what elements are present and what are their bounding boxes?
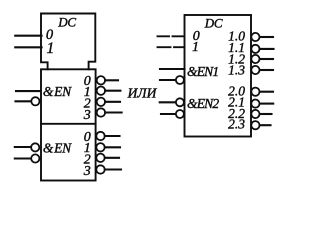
wire EN-B output 2: [105, 157, 119, 159]
inversion bubble EN-B output 3: [96, 165, 104, 173]
inversion bubble EN-A output 2: [97, 98, 105, 106]
wire DC2 output 2.2: [260, 113, 272, 115]
inversion bubble DC2 output 2.2: [251, 110, 259, 118]
wire EN-B output 0: [105, 135, 120, 137]
decoder block DC2 outline: [185, 15, 252, 137]
inversion bubble EN-A input 2: [31, 97, 39, 105]
svg-text:3: 3: [83, 164, 91, 179]
wire EN2 input 2: [161, 113, 176, 115]
wire DC1 input 0: [15, 35, 41, 37]
wire DC2 address input 0: [158, 35, 185, 37]
inversion bubble EN-A output 0: [97, 76, 105, 84]
svg-text:1.3: 1.3: [228, 63, 245, 78]
wire EN1 input inverted: [160, 79, 176, 81]
wire DC2 output 1.0: [260, 36, 273, 38]
svg-text:& EN: & EN: [43, 141, 72, 156]
wire DC2 output 1.2: [260, 58, 273, 60]
wire EN-B input 2: [15, 157, 31, 159]
wire DC2 output 2.1: [260, 103, 273, 105]
wire DC2 address input 1: [158, 46, 185, 48]
inversion bubble EN-B output 0: [96, 132, 104, 140]
svg-text:&EN2: &EN2: [187, 96, 219, 111]
wire EN-A output 3: [105, 111, 121, 113]
inversion bubble DC2 output 1.3: [251, 66, 259, 74]
inversion bubble DC2 output 2.0: [251, 88, 259, 96]
inversion bubble EN-B input 1: [31, 143, 39, 151]
inversion bubble EN-B output 2: [96, 154, 104, 162]
wire EN1 input direct: [160, 68, 185, 70]
wire DC2 output 1.1: [260, 48, 274, 50]
svg-text:1: 1: [192, 40, 199, 55]
wire DC1 input 1: [15, 46, 41, 48]
gate block EN-A and EN-B shared rectangle: [41, 69, 96, 180]
divider between EN-A and EN-B: [41, 123, 96, 125]
svg-text:DC: DC: [204, 16, 223, 31]
inversion bubble DC2 output 2.1: [251, 100, 259, 108]
inversion bubble EN-B input 2: [31, 154, 39, 162]
wire EN-A output 1: [105, 90, 120, 92]
svg-text:1: 1: [47, 40, 55, 57]
wire EN-B output 3: [105, 168, 121, 170]
svg-text:DC: DC: [57, 15, 76, 30]
wire EN-B input 1: [15, 146, 31, 148]
inversion bubble DC2 output 2.3: [251, 121, 259, 129]
wire DC2 output 2.3: [260, 124, 271, 126]
inversion bubble DC2 output 1.0: [251, 33, 259, 41]
inversion bubble EN-B output 1: [96, 143, 104, 151]
wire EN-B output 1: [105, 146, 120, 148]
inversion bubble DC2 output 1.1: [251, 45, 259, 53]
inversion bubble EN2 input 2: [176, 110, 184, 118]
inversion bubble DC2 output 1.2: [251, 55, 259, 63]
wire EN-A output 2: [105, 101, 120, 103]
inversion bubble EN-A output 3: [97, 108, 105, 116]
svg-text:3: 3: [83, 108, 91, 123]
wire EN-A input 2: [16, 100, 32, 102]
wire EN-A output 0: [105, 79, 118, 81]
svg-text:&EN1: &EN1: [187, 64, 218, 79]
inversion bubble EN-A output 1: [97, 87, 105, 95]
inversion bubble EN1 input: [176, 76, 184, 84]
svg-text:& EN: & EN: [43, 84, 72, 99]
wire DC2 output 2.0: [260, 91, 273, 93]
wire DC2 output 1.3: [260, 69, 273, 71]
decoder block DC1 outline: [41, 14, 95, 70]
svg-text:ИЛИ: ИЛИ: [127, 86, 158, 101]
inversion bubble EN2 input 1: [176, 98, 184, 106]
svg-text:2.3: 2.3: [228, 117, 245, 132]
wire EN-A input 1: [16, 90, 41, 92]
wire EN2 input 1: [160, 101, 176, 103]
